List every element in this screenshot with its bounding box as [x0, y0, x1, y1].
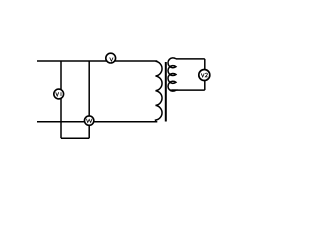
voltmeter V2 [199, 70, 210, 81]
voltmeter V1 [54, 89, 64, 99]
wire top line primary [37, 60, 157, 62]
wire voltmeter V1 branch [60, 61, 62, 138]
wire lower link [61, 137, 89, 139]
wire bottom line primary [37, 121, 157, 123]
transformer secondary winding [168, 58, 176, 91]
wattmeter W [84, 116, 93, 125]
voltmeter V [106, 53, 116, 63]
wire secondary right drop [204, 59, 206, 90]
wire wattmeter W branch [88, 61, 90, 138]
transformer core [165, 62, 167, 122]
wire secondary top [176, 58, 205, 60]
transformer primary winding [156, 61, 163, 122]
wire secondary bottom [170, 89, 205, 91]
